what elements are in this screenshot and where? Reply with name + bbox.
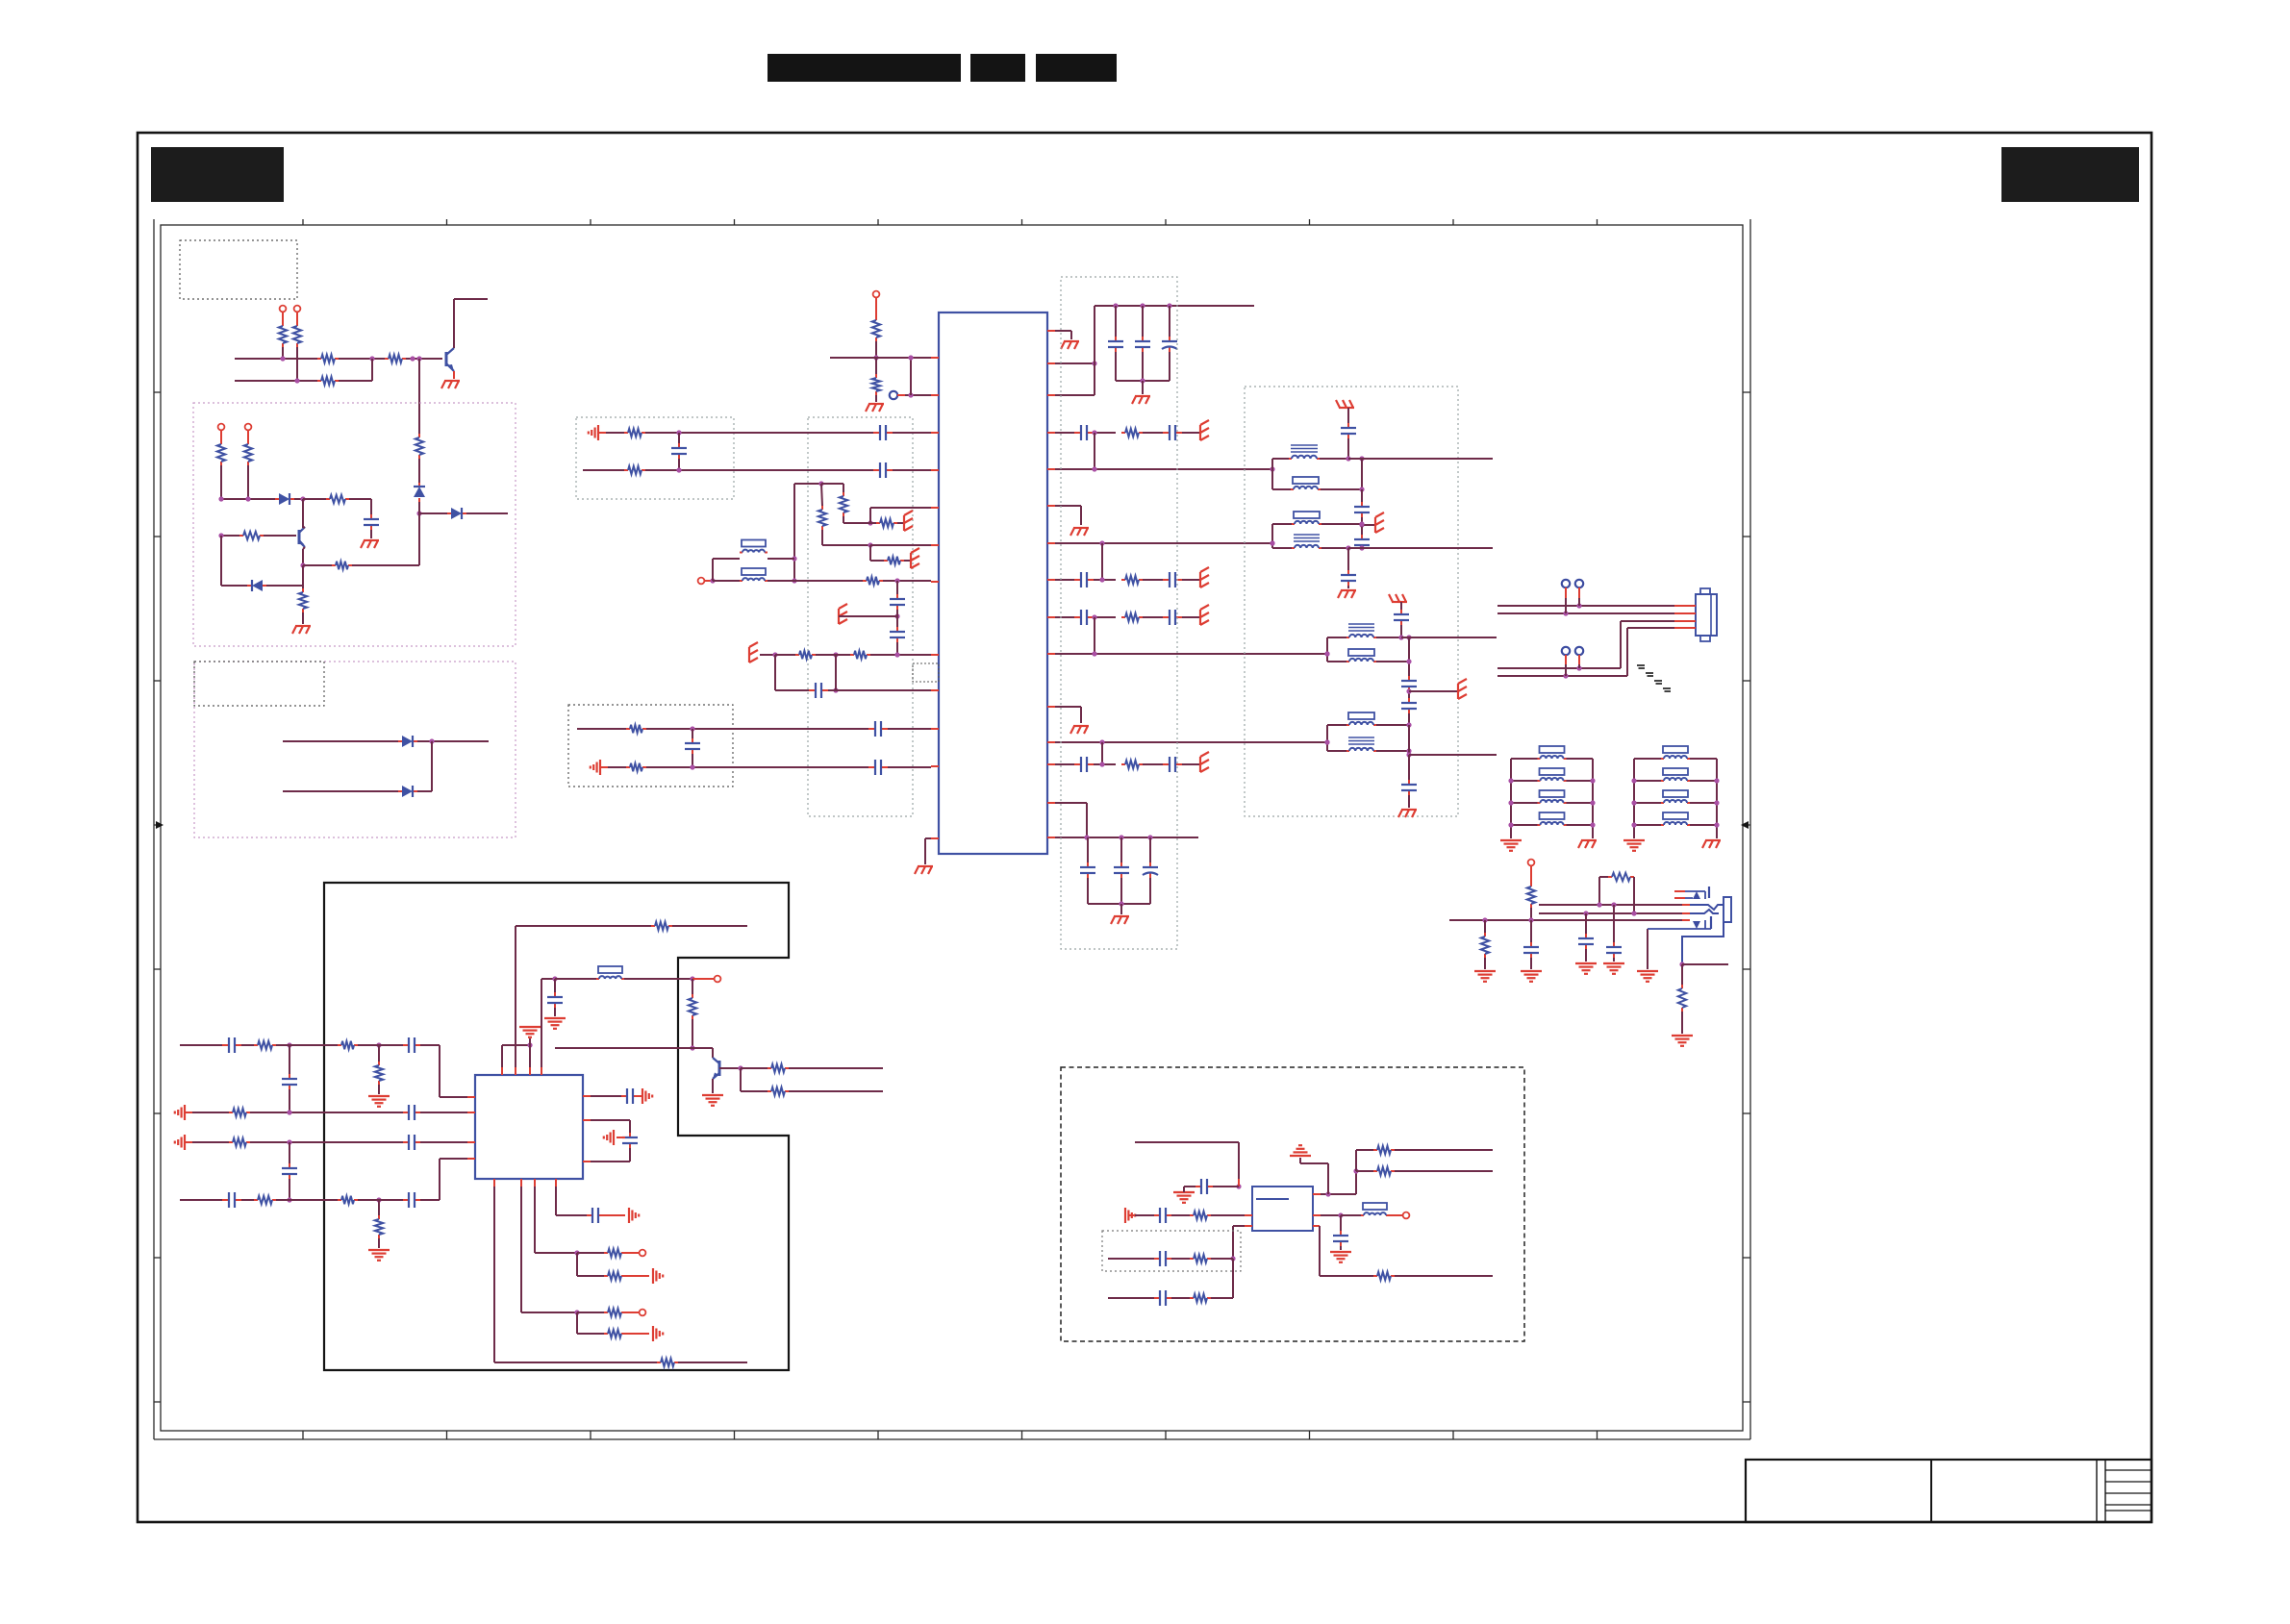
node: [873, 355, 878, 360]
transformer T3 winding b (bead): [1327, 661, 1346, 662]
earth ground: [1330, 1251, 1351, 1253]
resistor R38c: [229, 1141, 233, 1143]
wire: [645, 469, 873, 471]
signal wire C: [1055, 653, 1327, 655]
label box (dotted) top-left: [180, 240, 297, 299]
input row C: [1108, 1297, 1154, 1299]
coupling cap C38: [289, 1045, 290, 1074]
output wire C: [1401, 637, 1497, 638]
headphone bus 3: [1449, 919, 1682, 921]
ground (chassis): [1401, 809, 1417, 811]
cap chain C19: [896, 581, 898, 594]
resistor R38b: [229, 1112, 233, 1113]
transistor Q3 PNP: [718, 1061, 721, 1076]
U2 loop pins: [591, 1119, 630, 1121]
transformer T4 winding a (bead): [1327, 724, 1346, 726]
U2 ground bus top: [502, 1044, 530, 1046]
ferrite bead FBA1: [1511, 758, 1538, 760]
open terminal: [715, 976, 721, 983]
audio section outline box: [324, 883, 789, 1370]
node: [690, 1045, 694, 1050]
earth ground: [1672, 1035, 1693, 1037]
wire row 758: [577, 728, 626, 730]
output wire A: [1348, 458, 1493, 460]
T3 left rail: [1326, 637, 1328, 662]
node: [1406, 748, 1411, 753]
jack sleeve wire down: [1647, 929, 1648, 969]
resistor R14 vertical: [875, 374, 877, 378]
wire: [555, 1047, 713, 1049]
resistor R33 vertical: [1681, 964, 1683, 985]
regulator dashed box: [1061, 1067, 1524, 1341]
dotted group box transformers: [1245, 387, 1458, 816]
wire to U1 pin 528: [869, 508, 871, 523]
transistor Q2 PNP: [298, 530, 301, 544]
resistor R12 vertical: [302, 588, 304, 592]
wire: [646, 728, 868, 730]
chassis ground (prongs up): [1339, 407, 1354, 409]
T4 left rail: [1326, 725, 1328, 751]
resistor R21 vertical: [821, 483, 843, 485]
vertical wire from row1 down: [418, 359, 420, 434]
wire: [672, 925, 747, 927]
U3 pin 3 jog: [1245, 1225, 1252, 1227]
resistor R5: [317, 380, 321, 382]
dotted input box rows 450/489: [576, 417, 734, 499]
test point TP1: [1562, 580, 1570, 587]
wire pin 378: [1055, 362, 1095, 364]
wire: [1355, 1171, 1357, 1194]
cap C33: [1530, 920, 1532, 942]
wire: [843, 516, 844, 523]
resistor R39 vertical: [378, 1045, 380, 1062]
cap C47: [1135, 1214, 1154, 1216]
wire row2 to row1: [339, 380, 372, 382]
RC filter row (pin 642): cap C9, resistor R17, cap C10: [1055, 616, 1074, 618]
base wire: [719, 1067, 741, 1069]
bus wire: [221, 498, 275, 500]
coupling cap C23 vertical: [692, 729, 693, 738]
earth ground: [1474, 970, 1496, 972]
dotted group box right of U1: [1061, 277, 1177, 949]
cap return bus: [1088, 903, 1150, 905]
decoupling cap C2: [1115, 306, 1117, 337]
ferrite bead FBB3: [1634, 802, 1661, 804]
ferrite bead FBB4: [1634, 824, 1661, 826]
U1 left pin stubs: [931, 357, 939, 359]
earth ground: [368, 1095, 390, 1097]
supply bus: [1095, 305, 1254, 307]
resistor R45: [577, 1252, 604, 1254]
earth ground: [1603, 962, 1624, 964]
jog: [1101, 742, 1103, 764]
headphone jack J2: [1724, 897, 1731, 922]
wire: [794, 580, 863, 582]
node net cluster: [794, 483, 821, 485]
U3 top wire: [1135, 1141, 1239, 1143]
cap C30: [1408, 676, 1410, 681]
feedback loop: [774, 655, 776, 690]
power terminal P3: [218, 424, 225, 431]
headphone bus 2: [1539, 912, 1682, 914]
wire J1 pin2: [1497, 612, 1674, 614]
series cap C42a: [222, 1199, 229, 1201]
cap C26: [1361, 489, 1363, 502]
redaction bar 2: [970, 54, 1025, 82]
resistor R27: [836, 654, 850, 656]
resistor R6 vertical: [418, 434, 420, 437]
cap C29: [1400, 610, 1402, 614]
signal ground symbol: [599, 760, 601, 775]
ground (chassis): [1064, 340, 1079, 342]
node: [376, 1042, 381, 1047]
wire: [646, 766, 868, 768]
ferrite bead FBB1: [1634, 758, 1661, 760]
node: [287, 1042, 291, 1047]
node: [287, 1197, 291, 1202]
wire row2: [235, 380, 317, 382]
power terminal P4: [245, 424, 252, 431]
test point TP2: [1575, 580, 1583, 587]
U1 pin 735 to ground: [1055, 706, 1081, 708]
signal wire D: [1055, 741, 1327, 743]
earth symbol: [1199, 425, 1201, 440]
resistor R32 vertical: [1484, 920, 1486, 933]
decoupling cap C14: [1120, 837, 1122, 862]
small dotted box at U1 left: [913, 663, 939, 682]
resistor R42: [657, 1362, 661, 1363]
earth ground: [544, 1017, 566, 1019]
U1 pin 526 to ground: [1055, 505, 1081, 507]
pull-up resistor R1: [282, 322, 284, 326]
wire row: [283, 790, 398, 792]
output wire B: [1362, 547, 1493, 549]
ground below C1: [370, 530, 372, 538]
resistor R40a: [241, 1199, 254, 1201]
resistor R44: [576, 1312, 578, 1334]
ferrite bead FBA4: [1511, 824, 1538, 826]
U3 left pin row: [1245, 1214, 1252, 1216]
earth ground: [702, 1094, 723, 1096]
wire into U1 pin: [830, 357, 931, 359]
wire to base: [406, 358, 442, 360]
resistor R28: [626, 728, 630, 730]
signal ground: [184, 1135, 186, 1150]
node: [1346, 545, 1350, 550]
node + earth symbol: [1359, 522, 1364, 527]
redaction bar 1 (top title): [768, 54, 961, 82]
wire: [417, 740, 489, 742]
earth symbol: [1199, 572, 1201, 587]
wire to node A column: [352, 564, 419, 566]
RC filter row (pin 603): cap C7, resistor R16, cap C8: [1055, 579, 1074, 581]
earth ground small: [529, 1038, 531, 1045]
wire J1 pin4: [1627, 627, 1674, 629]
cap C36: [554, 979, 556, 992]
input row C: [192, 1141, 229, 1143]
cap C32 below: [1408, 755, 1410, 780]
resistor R40: [338, 1199, 341, 1201]
wire to U2: [439, 1159, 440, 1200]
cap C42: [379, 1199, 403, 1201]
IC U3: [1252, 1187, 1313, 1231]
signal wire A to line transformer: [1055, 468, 1272, 470]
ferrite bead FBA3: [1511, 802, 1538, 804]
U2 right pin row: [591, 1095, 621, 1097]
cap C31: [1408, 698, 1410, 703]
cap C28 below: [1347, 548, 1349, 570]
capacitor C1: [370, 514, 372, 519]
wire: [1400, 602, 1402, 610]
transformer T2 winding a (bead): [1272, 523, 1292, 525]
resistor R20: [624, 469, 628, 471]
power terminal P7: [1528, 860, 1535, 866]
resistor R11: [303, 564, 332, 566]
wire: [624, 978, 692, 980]
power terminal P5: [873, 291, 880, 298]
earth symbol tap: [850, 615, 897, 617]
earth symbol: [1199, 757, 1201, 772]
main IC U1: [939, 312, 1047, 854]
T1 left rail: [1271, 459, 1273, 489]
left rail down: [220, 536, 222, 586]
cap C34: [1585, 913, 1587, 934]
resistor R34: [651, 925, 655, 927]
ground below R12: [295, 625, 311, 627]
jog to signal wire: [1094, 433, 1095, 469]
rail: [1408, 725, 1410, 755]
array left rail: [1633, 759, 1635, 838]
resistor R26: [775, 654, 795, 656]
ground (chassis) below Q1: [444, 380, 460, 382]
resistor R24: [869, 545, 871, 561]
redaction bar 3: [1036, 54, 1117, 82]
signal ground symbol: [597, 425, 599, 440]
test point TP3: [1562, 647, 1570, 655]
U2 bottom pin 3: [534, 1187, 536, 1253]
earth symbol: [897, 522, 904, 524]
wire: [302, 565, 304, 588]
resistor R8: [247, 440, 249, 444]
open terminal: [1389, 1214, 1402, 1216]
label box (dotted): [194, 662, 324, 706]
resistor R22: [876, 522, 880, 524]
cap C50: [1340, 1215, 1342, 1231]
black label box top-left: [151, 147, 284, 202]
open terminal: [625, 1312, 639, 1313]
dotted input box rows 758/798: [568, 705, 733, 787]
ground (chassis): [1341, 589, 1356, 591]
cap C44: [629, 1133, 631, 1137]
border midpoint arrows: [156, 821, 164, 829]
rail: [1408, 637, 1410, 676]
wire row: [283, 740, 398, 742]
resistor R38a: [241, 1044, 254, 1046]
series cap C24: [868, 766, 875, 768]
signal ground: [625, 1333, 649, 1335]
earth symbol: [748, 647, 750, 662]
ground (chassis): [1073, 527, 1089, 529]
wire to C1: [349, 498, 371, 500]
resistor R51 row: [1355, 1150, 1357, 1171]
series cap C18: [873, 469, 880, 471]
outer page frame: [138, 133, 2152, 1522]
wire to U1 pin 605: [883, 580, 931, 582]
transformer T3 winding a (core): [1327, 637, 1346, 638]
diode D1 (up): [418, 483, 420, 487]
resistor R35 vertical: [692, 979, 693, 994]
input terminal P6: [698, 578, 705, 585]
cap C39: [403, 1112, 409, 1113]
Q1 collector wire: [454, 298, 488, 300]
resistor R48: [1171, 1258, 1190, 1260]
signal ground tap: [617, 1137, 625, 1138]
cap return bus: [1116, 380, 1170, 382]
transformer T2 winding b (core): [1272, 547, 1292, 549]
wire to U1 pin 567: [870, 544, 931, 546]
earth symbol: [904, 560, 911, 562]
input row D: [180, 1199, 222, 1201]
polarized cap C4: [1169, 306, 1170, 337]
resistor R13 vertical: [875, 316, 877, 320]
resistor R37: [740, 1068, 742, 1091]
input row A: [180, 1044, 222, 1046]
earth ground above: [1327, 1163, 1329, 1194]
jack sleeve path: [1682, 922, 1724, 964]
drawing sheet border with ruler ticks: [161, 225, 1743, 1431]
resistor R36: [741, 1067, 768, 1069]
wire J1 pin3: [1621, 620, 1674, 622]
cap C40: [403, 1141, 409, 1143]
dashed function box 2: [194, 662, 516, 837]
decoupling cap C13: [1087, 837, 1089, 862]
series resistor R4: [385, 358, 389, 360]
pull-up resistor R2: [296, 322, 298, 326]
earth symbol: [1199, 610, 1201, 625]
test point TP4: [1575, 647, 1583, 655]
earth ground: [368, 1249, 390, 1251]
wire: [1347, 408, 1349, 423]
ground (chassis): [1135, 395, 1150, 397]
ground below R14: [868, 403, 884, 405]
diode D5: [398, 740, 402, 742]
wire up to row: [417, 790, 432, 792]
coupling cap C17 vertical: [678, 433, 680, 443]
diode D4 output: [419, 512, 447, 514]
ferrite bead FBA2: [1511, 780, 1538, 782]
cap C48: [1154, 1258, 1160, 1260]
resistor R9: [303, 498, 326, 500]
chassis ground: [1705, 839, 1721, 841]
IC U2: [475, 1075, 583, 1179]
jog: [1094, 617, 1095, 654]
earth ground: [1637, 970, 1658, 972]
base resistor R10: [221, 535, 239, 537]
cap C43: [621, 1095, 627, 1097]
ferrite bead FB6: [1341, 1214, 1361, 1216]
node: [1346, 456, 1350, 461]
wire: [339, 358, 385, 360]
resistor R31 (parallel): [1599, 876, 1608, 878]
node: [833, 687, 838, 692]
input row B: [1108, 1258, 1154, 1260]
cap C27: [1361, 535, 1363, 539]
black label box top-right: [2001, 147, 2139, 202]
resistor R25: [863, 580, 867, 582]
wire to U1 pin 718: [836, 689, 931, 691]
ferrite bead FB5: [555, 978, 596, 980]
U3 output pin: [1313, 1214, 1321, 1216]
ferrite bead FB2: [713, 580, 740, 582]
cap C35: [1613, 905, 1615, 942]
node: [868, 520, 872, 525]
node: [772, 652, 777, 657]
ground (chassis): [1114, 915, 1129, 917]
array right rail: [1716, 759, 1718, 838]
power terminal P2: [294, 306, 301, 312]
polarized cap C15: [1149, 837, 1151, 862]
wire J1 pin1: [1497, 605, 1674, 607]
chassis ground: [1581, 839, 1597, 841]
resistor R38: [338, 1044, 341, 1046]
earth ground: [1521, 970, 1542, 972]
U1 right pin stubs: [1047, 330, 1055, 332]
resistor R49: [1171, 1297, 1190, 1299]
resistor R19: [606, 432, 624, 434]
resistor R29: [608, 766, 626, 768]
rail: [1361, 459, 1363, 489]
wire row 450: [645, 432, 873, 434]
RC filter row (pin 795): cap C11, resistor R18, cap C12: [1055, 763, 1074, 765]
transformer T4 winding b (core): [1327, 750, 1346, 752]
U2 bottom pin 4: [555, 1187, 557, 1215]
jack switch lower: [1648, 928, 1711, 930]
wire: [821, 530, 823, 545]
power terminal P1: [280, 306, 287, 312]
line transformer T1 winding a (core): [1272, 458, 1289, 460]
U2 pin stubs: [501, 1067, 503, 1075]
node + earth symbol: [1406, 688, 1411, 693]
resistor R46: [576, 1253, 578, 1276]
node A: [416, 511, 421, 515]
node: [376, 1197, 381, 1202]
connector J1: [1696, 594, 1717, 636]
cap C21: [809, 689, 816, 691]
signal wire B: [1055, 542, 1272, 544]
input row B: [192, 1112, 229, 1113]
series cap C16: [873, 432, 880, 434]
diode D2: [275, 498, 279, 500]
chassis ground (prongs up): [1392, 601, 1407, 603]
signal ground: [1124, 1208, 1126, 1223]
resistor R41 vertical: [378, 1200, 380, 1215]
series cap C37a: [222, 1044, 229, 1046]
wire to U1 pin 681: [870, 654, 931, 656]
dashed function box 1: [193, 403, 516, 646]
array right rail: [1592, 759, 1594, 838]
output wire D: [1409, 754, 1497, 756]
resistor R7: [220, 440, 222, 444]
resistor R43: [577, 1312, 604, 1313]
U1 pin wire to ground: [1055, 330, 1071, 332]
no-connect marks: [1637, 664, 1645, 666]
wire pin 411: [1055, 394, 1095, 396]
U1 pin 871 bus: [1055, 837, 1198, 838]
node: [1679, 962, 1684, 966]
signal ground: [642, 1088, 643, 1104]
node: [833, 652, 838, 657]
diode D3 (left): [221, 585, 247, 587]
